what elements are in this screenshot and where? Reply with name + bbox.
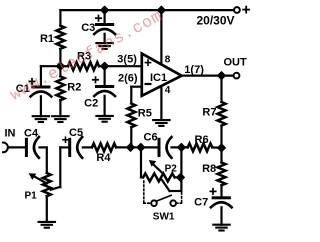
- ground below R2: [52, 115, 68, 117]
- junction dot P2 right: [177, 174, 184, 181]
- potentiometer P2: [141, 176, 143, 178]
- resistor R3: [60, 65, 68, 67]
- ground below P1: [39, 221, 55, 223]
- wire P1 wiper to C5: [51, 187, 61, 190]
- resistor R6: [184, 146, 188, 148]
- svg-text:R8: R8: [202, 163, 216, 175]
- node X junction dot (R1/R2/R3/C1): [57, 63, 64, 70]
- svg-text:20/30V: 20/30V: [197, 14, 235, 28]
- node B junction dot: [178, 144, 185, 151]
- capacitor C3: [103, 10, 105, 23]
- resistor R1: [59, 10, 61, 26]
- svg-text:OUT: OUT: [224, 57, 248, 69]
- svg-text:2(6): 2(6): [118, 73, 138, 85]
- ground below C1: [33, 115, 49, 117]
- svg-text:R4: R4: [96, 152, 111, 164]
- svg-text:IC1: IC1: [150, 72, 167, 84]
- P2 wiper arrow: [152, 163, 162, 172]
- wire C4 to P1: [40, 146, 47, 148]
- junction dot C3/rail: [101, 6, 108, 13]
- junction dot P2 left: [137, 144, 144, 151]
- terminal V+ supply: [234, 7, 240, 13]
- wire P2 wiper connection: [162, 180, 170, 191]
- node C junction dot (R6/R7/R8): [218, 144, 225, 151]
- svg-text:C4: C4: [24, 128, 39, 140]
- capacitor C5: [60, 146, 68, 148]
- junction dot output/R7: [218, 72, 225, 79]
- switch SW1 dashed links: [144, 181, 182, 203]
- svg-text:4: 4: [165, 85, 171, 96]
- svg-text:R1: R1: [40, 33, 54, 45]
- wire top supply rail: [60, 9, 233, 11]
- capacitor C7: [212, 196, 231, 199]
- svg-text:C6: C6: [144, 132, 158, 144]
- svg-text:R6: R6: [195, 134, 209, 146]
- resistor R8: [220, 148, 222, 163]
- svg-text:8: 8: [165, 55, 171, 66]
- svg-text:3(5): 3(5): [117, 54, 137, 66]
- wire node B to P2 right: [180, 147, 182, 177]
- svg-text:C5: C5: [69, 127, 83, 139]
- wire node A to C6: [131, 146, 158, 148]
- svg-text:1(7): 1(7): [184, 64, 204, 76]
- capacitor C4: [8, 146, 25, 148]
- ground below C7: [213, 224, 229, 226]
- svg-text:IN: IN: [5, 128, 16, 140]
- junction dot pin8/rail: [158, 6, 165, 13]
- svg-text:C7: C7: [194, 197, 208, 209]
- wire node Y to +input: [105, 65, 142, 67]
- svg-text:R5: R5: [138, 107, 152, 119]
- ground below C2: [96, 115, 112, 117]
- terminal OUT: [234, 73, 240, 79]
- svg-text:SW1: SW1: [153, 212, 175, 223]
- svg-text:C3: C3: [81, 22, 95, 34]
- SW1 lever: [157, 195, 171, 201]
- resistor R2: [59, 66, 61, 76]
- resistor R4: [83, 146, 92, 148]
- P1 wiper arrow: [34, 176, 47, 184]
- svg-text:P2: P2: [165, 163, 178, 174]
- capacitor C6: [158, 138, 161, 157]
- node Y junction dot (R3/C2/+in): [101, 63, 108, 70]
- ground below C3: [96, 42, 112, 44]
- node A junction dot (R4/R5): [127, 144, 134, 151]
- capacitor C2: [103, 66, 105, 85]
- svg-text:R2: R2: [67, 82, 81, 94]
- op-amp IC1: [142, 54, 182, 96]
- wire -input: [131, 86, 142, 88]
- wire output: [182, 74, 234, 76]
- terminal IN: [3, 143, 8, 153]
- svg-text:P1: P1: [25, 191, 38, 202]
- wire P2 left leg: [140, 147, 142, 177]
- wire C6 to node B: [172, 146, 188, 148]
- potentiometer P1: [43, 173, 51, 196]
- resistor R7: [220, 76, 222, 102]
- wire pin 4 to ground: [160, 86, 162, 120]
- ground below pin 4: [153, 119, 169, 121]
- resistor R5: [127, 104, 135, 128]
- wire node X to C1: [41, 65, 61, 67]
- switch SW1 left contact: [151, 200, 157, 206]
- svg-text:C2: C2: [84, 98, 98, 110]
- capacitor C1: [31, 86, 50, 89]
- wire pin 8 to rail: [160, 10, 162, 64]
- svg-text:R7: R7: [202, 107, 216, 119]
- switch SW1 right contact: [170, 200, 176, 206]
